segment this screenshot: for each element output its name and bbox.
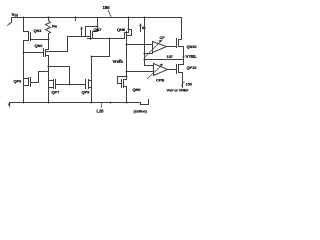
op-amp U1	[146, 35, 167, 57]
label 150 leader at Vref	[182, 82, 193, 87]
svg-text:(ssline): (ssline)	[134, 109, 148, 114]
wire QN1 drain down	[23, 41, 25, 103]
current arrow I up	[80, 26, 83, 37]
wire QP9 drain column	[91, 57, 93, 103]
svg-text:Vdd: Vdd	[12, 12, 19, 18]
wire mirror-gate tee	[49, 67, 70, 85]
transistor QP10	[168, 65, 198, 88]
wire QN2 source down	[48, 56, 50, 103]
svg-text:QP9: QP9	[82, 90, 91, 95]
svg-text:150: 150	[186, 82, 193, 87]
wire op-amp2 input	[145, 65, 154, 67]
svg-text:VYBL: VYBL	[186, 54, 198, 59]
current arrow dI up	[139, 23, 145, 32]
svg-text:QN2: QN2	[35, 43, 44, 48]
transistor QN0	[118, 77, 142, 103]
svg-text:CPB: CPB	[156, 78, 164, 83]
wire op-amp1 input	[127, 44, 153, 46]
wire Vdd rail	[12, 17, 182, 19]
label 150 with leader	[103, 5, 112, 17]
node dot (126,44.3)	[126, 44, 128, 46]
svg-text:CF: CF	[160, 35, 166, 40]
node dot gnd x23	[23, 102, 25, 104]
label VYBL	[186, 54, 198, 59]
node dot gnd x91.6	[91, 102, 93, 104]
node dot (126,69.75)	[126, 71, 128, 73]
wire source-coupled	[88, 38, 121, 40]
node dot (48,66.2)	[48, 66, 50, 68]
wire bias column x144	[144, 18, 146, 66]
wire QN2 right branch up	[67, 37, 69, 52]
svg-text:Ra: Ra	[52, 24, 58, 29]
transistor QP7	[49, 80, 61, 95]
wire tail to QP9	[92, 39, 110, 57]
wire feedback/output line	[145, 59, 184, 61]
node dot rail x128.5	[128, 17, 130, 19]
transistor QN8	[117, 18, 132, 40]
node dot rail x48	[48, 17, 50, 19]
node stub rail x75	[75, 18, 77, 21]
node dot (144,51.2)	[144, 53, 146, 55]
node dot rail x23	[23, 17, 25, 19]
label ssline	[134, 109, 148, 114]
node Vdd label	[12, 12, 19, 18]
svg-text:QN10: QN10	[187, 44, 198, 49]
node dot (97,26.2)	[97, 26, 99, 28]
wire Vrefb column	[126, 40, 128, 80]
node dot (48,39.5)	[48, 39, 50, 41]
wire gate tie QP7-QP9	[56, 84, 86, 86]
node dot (126,76)	[126, 76, 128, 78]
svg-text:QN0: QN0	[133, 87, 142, 92]
transistor QP6	[14, 72, 49, 87]
node dot rail x144	[144, 17, 146, 19]
ground rail	[10, 102, 141, 104]
node dot VYBL	[182, 55, 184, 57]
node dot (91.6,56.5)	[91, 56, 93, 58]
transistor QN1	[24, 18, 49, 41]
Vdd input arrow	[8, 18, 12, 26]
transistor QP9	[82, 80, 92, 95]
svg-text:QN7: QN7	[94, 27, 103, 32]
svg-text:QP6: QP6	[14, 79, 23, 84]
wire op-amp1 input2	[145, 53, 153, 55]
op-amp U2	[148, 64, 168, 83]
transistor QN10	[167, 18, 198, 65]
svg-text:Vrefb: Vrefb	[113, 59, 124, 64]
node dot (108,40)	[109, 38, 111, 40]
label 157	[167, 54, 174, 59]
transistor QN7	[86, 18, 103, 40]
transistor QN2	[35, 40, 68, 57]
svg-text:QP7: QP7	[52, 90, 61, 95]
label Vref or VREF	[167, 89, 190, 93]
node dot gnd x110	[110, 102, 112, 104]
node dot (69.5,84)	[69, 84, 71, 86]
label Vrefb	[113, 59, 124, 64]
wire op-amp2 input2	[127, 71, 154, 73]
svg-text:157: 157	[167, 54, 174, 59]
wire QN2 source to QN7 gate	[68, 36, 86, 38]
svg-text:150: 150	[103, 5, 111, 10]
node dot (128.5,29.5)	[128, 29, 130, 31]
ground end arrow	[8, 103, 11, 107]
node dot gnd x126	[126, 102, 128, 104]
svg-text:QN8: QN8	[117, 27, 126, 32]
wire gate of QN2	[24, 52, 44, 54]
svg-text:L20: L20	[97, 109, 105, 114]
node dot gnd x48	[48, 102, 50, 104]
svg-text:QP10: QP10	[187, 65, 198, 70]
node dot (23,52.5)	[23, 52, 25, 54]
node dot (144,57.5)	[144, 59, 146, 61]
resistor Ra	[46, 18, 58, 40]
svg-text:QN1: QN1	[34, 28, 43, 33]
label L20 with leader	[97, 103, 105, 114]
svg-text:Vref or VREF: Vref or VREF	[167, 89, 190, 93]
